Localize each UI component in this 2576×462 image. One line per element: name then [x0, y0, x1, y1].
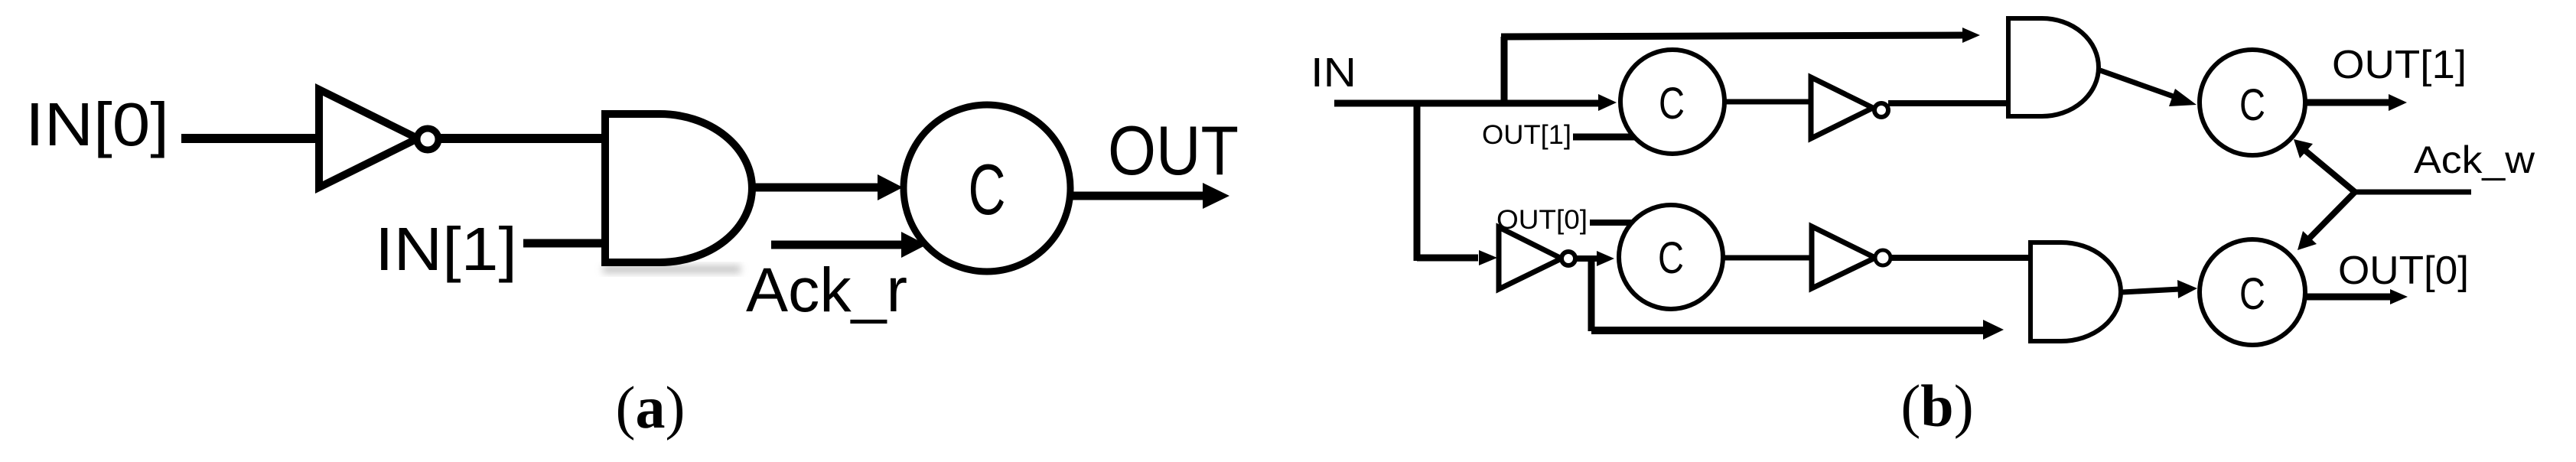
C-element C3 (b bottom-left) — [1619, 205, 1723, 309]
wire top long horizontal to AND1 with arrow — [1501, 28, 1980, 43]
svg-text:OUT: OUT — [1108, 112, 1239, 190]
svg-text:C: C — [2239, 80, 2265, 130]
wire Ack_w upper diagonal arrow into C2 — [2294, 139, 2355, 192]
wire OUT arrow from C-element — [1072, 183, 1229, 209]
svg-text:OUT[1]: OUT[1] — [2332, 43, 2467, 87]
wire Ack_w horizontal — [2355, 190, 2471, 195]
C-element C1 (b top-left) — [1620, 50, 1724, 154]
svg-text:(a): (a) — [616, 374, 686, 441]
wire OUT[0] output arrow — [2305, 289, 2408, 304]
AND gate U1 (a) — [603, 114, 752, 273]
wire branch up from IN line — [1501, 37, 1508, 106]
wire OUT[1] feedback into C1 — [1573, 134, 1637, 141]
inverter INV2 (b top) — [1811, 77, 1888, 138]
wire AND2 output arrow to C4 — [2122, 280, 2197, 298]
svg-text:C: C — [2239, 269, 2265, 319]
inverter INV3 (b bottom) — [1812, 226, 1890, 288]
wire vertical drop to bottom feedback — [1588, 259, 1595, 331]
wire IN[1] to AND gate — [523, 239, 608, 248]
inverter (a) — [319, 89, 438, 187]
wire IN main horizontal with arrow into C1 — [1334, 94, 1617, 111]
wire inverter to AND gate — [438, 134, 608, 143]
svg-text:(b): (b) — [1900, 373, 1973, 439]
wire IN branch to inverter INV1 with arrow — [1417, 250, 1497, 265]
wire Ack_w lower diagonal arrow into C4 — [2298, 192, 2355, 250]
wire C3 to inverter INV3 — [1723, 255, 1814, 261]
wire INV1 bubble to C3 with arrow — [1576, 251, 1614, 266]
svg-text:IN[0]: IN[0] — [25, 90, 169, 158]
AND gate AND1 (b top) — [2008, 18, 2099, 116]
AND gate AND2 (b bottom) — [2031, 242, 2121, 341]
inverter INV1 (b bottom-left) — [1499, 227, 1575, 289]
wire junction vertical down from IN line — [1414, 103, 1421, 261]
svg-text:OUT[1]: OUT[1] — [1482, 120, 1571, 150]
wire INV3 to AND2 — [1890, 255, 2031, 261]
wire AND1 output diagonal arrow to C2 — [2100, 70, 2197, 106]
C-element C2 (b top-right) — [2200, 50, 2305, 155]
wire INV2 to AND1 — [1888, 100, 2010, 106]
wire IN[0] to inverter — [181, 134, 321, 143]
svg-text:IN: IN — [1311, 50, 1356, 96]
wire OUT[1] output arrow — [2305, 94, 2407, 111]
C-element U2 (a) — [904, 105, 1070, 272]
svg-text:C: C — [969, 149, 1006, 229]
svg-text:IN[1]: IN[1] — [375, 215, 517, 283]
svg-text:OUT[0]: OUT[0] — [2338, 249, 2469, 293]
wire C1 to inverter INV2 — [1724, 99, 1813, 105]
svg-text:C: C — [1659, 79, 1685, 129]
svg-text:Ack_r: Ack_r — [746, 255, 907, 325]
wire Ack_r arrow to C-element — [771, 232, 927, 258]
svg-text:OUT[0]: OUT[0] — [1496, 205, 1588, 235]
wire bottom feedback long horizontal to AND2 with arrow — [1591, 320, 2004, 340]
svg-text:Ack_w: Ack_w — [2414, 138, 2535, 181]
svg-text:C: C — [1658, 233, 1684, 283]
C-element C4 (b bottom-right) — [2200, 239, 2305, 345]
wire OUT[0] feedback into C3 — [1590, 220, 1635, 226]
wire AND output arrow to C-element — [752, 174, 903, 200]
